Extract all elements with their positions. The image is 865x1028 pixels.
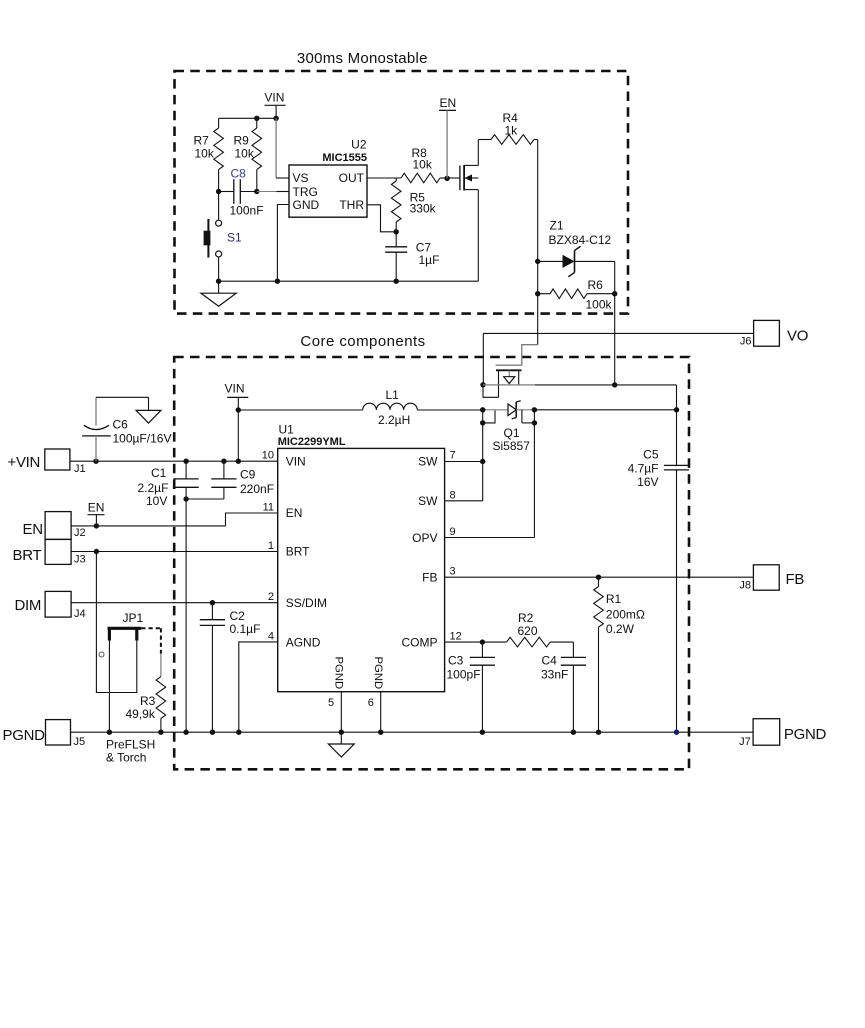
svg-text:J8: J8 [739, 580, 751, 592]
wire: JP1 pin1 to PGND rail [108, 641, 110, 733]
svg-text:10V: 10V [146, 494, 167, 508]
svg-text:PreFLSH: PreFLSH [106, 738, 155, 752]
wire: M1 drain to R4 [477, 140, 479, 166]
svg-text:VIN: VIN [264, 91, 284, 105]
svg-text:16V: 16V [637, 475, 658, 489]
svg-text:AGND: AGND [286, 635, 321, 649]
junction dot R8/EN/gate [444, 176, 449, 181]
wire: BRT line to U1 BRT pin 1 [71, 551, 278, 553]
wire: Z1 cathode down to R6 right [614, 261, 616, 293]
svg-text:4: 4 [268, 630, 274, 642]
connector J3 BRT [13, 539, 86, 565]
junction dot C6 tap [93, 459, 98, 464]
jumper JP1 [99, 611, 161, 657]
svg-text:SS/DIM: SS/DIM [286, 596, 327, 610]
svg-text:49,9k: 49,9k [126, 707, 156, 721]
junction dot Q1 left at SW node [480, 407, 485, 412]
resistor R2 620 [482, 611, 573, 657]
svg-text:1k: 1k [505, 124, 519, 138]
svg-text:SW: SW [418, 455, 438, 469]
connector J2 EN [23, 512, 86, 540]
svg-text:VIN: VIN [225, 382, 245, 396]
svg-text:J2: J2 [74, 527, 86, 539]
svg-text:100nF: 100nF [230, 204, 264, 218]
junction dot AGND at rail [236, 730, 241, 735]
svg-text:200mΩ: 200mΩ [606, 608, 645, 622]
svg-text:Si5857: Si5857 [493, 439, 531, 453]
svg-text:PGND: PGND [332, 657, 344, 690]
svg-text:3: 3 [450, 566, 456, 578]
svg-text:FB: FB [786, 571, 805, 588]
capacitor C8 100nF [219, 167, 264, 218]
capacitor C3 100pF [447, 642, 496, 732]
svg-text:MIC2299YML: MIC2299YML [278, 436, 346, 448]
svg-text:620: 620 [518, 624, 538, 638]
svg-text:Q1: Q1 [504, 426, 520, 440]
wire: U1 SW pin 8 [445, 500, 483, 502]
junction dot COMP/C3/R2 [480, 639, 485, 644]
junction dot C5 at rail (navy) [674, 730, 679, 735]
svg-text:SW: SW [418, 494, 438, 508]
net label EN (monostable) [439, 96, 456, 178]
op-amp/timer U2 MIC1555 box [289, 138, 367, 218]
svg-text:2: 2 [268, 591, 274, 603]
inductor L1 2.2uH [238, 388, 482, 427]
wire: U2 THR to node [367, 205, 396, 232]
junction dot VIN label at input line [236, 459, 241, 464]
svg-text:9: 9 [450, 526, 456, 538]
wire: U1 PGND pin 5 to rail [340, 692, 342, 733]
wire: SW node vertical (pins 7/8) [482, 423, 484, 501]
wire: U1 PGND pin 6 to rail [380, 692, 382, 733]
junction dot R1 at rail [596, 730, 601, 735]
svg-text:300ms Monostable: 300ms Monostable [297, 50, 428, 67]
svg-text:PGND: PGND [3, 727, 46, 744]
svg-text:10k: 10k [413, 158, 433, 172]
junction dot EN label tap [94, 523, 99, 528]
junction dot C8 left [216, 189, 221, 194]
svg-text:VS: VS [293, 171, 309, 185]
svg-text:MIC1555: MIC1555 [322, 152, 367, 164]
svg-text:1: 1 [268, 540, 274, 552]
transistor M1 n-channel MOSFET [460, 165, 478, 191]
resistor R7 10k [194, 118, 224, 191]
wire: U1 OPV pin 9 [445, 537, 535, 539]
connector J4 DIM [15, 591, 86, 620]
capacitor C2 0.1uF [200, 603, 261, 733]
wire: monostable ground rail [219, 280, 479, 282]
svg-text:COMP: COMP [402, 635, 438, 649]
connector J7 PGND [739, 719, 826, 749]
svg-text:PGND: PGND [784, 726, 827, 743]
wire: output node to C5 [534, 409, 676, 411]
svg-text:EN: EN [88, 501, 105, 515]
svg-text:S1: S1 [227, 231, 242, 245]
transistor Q1 Si5857 body diode [483, 401, 535, 453]
svg-text:Z1: Z1 [550, 219, 564, 233]
capacitor C9 220nF [186, 461, 274, 499]
junction dot PGND5 [339, 730, 344, 735]
label PreFLSH & Torch [106, 738, 155, 765]
svg-text:33nF: 33nF [541, 668, 568, 682]
capacitor C6 100uF/16V polarized [82, 397, 171, 461]
svg-text:BRT: BRT [13, 547, 42, 564]
svg-text:C5: C5 [643, 448, 659, 462]
junction dot C9 top [221, 459, 226, 464]
switch S1 pushbutton [204, 192, 242, 282]
svg-text:R2: R2 [518, 611, 534, 625]
svg-text:+VIN: +VIN [8, 454, 41, 471]
wire: Q2 drain line [483, 384, 677, 386]
junction dot C2 tap [210, 600, 215, 605]
wire: DIM line to U1 SS/DIM pin 2 [71, 602, 278, 604]
junction dot SW pin7 [480, 459, 485, 464]
svg-text:& Torch: & Torch [106, 751, 146, 765]
junction dot R6 left [535, 291, 540, 296]
svg-text:DIM: DIM [15, 597, 42, 614]
junction dot C8 right / TRG [254, 189, 259, 194]
connector J6 VO [740, 320, 808, 347]
svg-text:6: 6 [368, 697, 374, 709]
svg-text:8: 8 [450, 489, 456, 501]
svg-text:2.2µF: 2.2µF [138, 481, 169, 495]
connector J1 +VIN [8, 449, 86, 475]
transistor Q2 p-channel MOSFET (output disconnect) [483, 345, 538, 398]
svg-text:0.2W: 0.2W [606, 622, 635, 636]
svg-text:R3: R3 [140, 694, 156, 708]
capacitor C4 33nF [541, 654, 586, 733]
junction dot Q1 right at output node [532, 407, 537, 412]
svg-text:100k: 100k [586, 298, 613, 312]
wire: U2 GND to ground rail [277, 205, 289, 282]
junction dot R6 right [612, 291, 617, 296]
resistor R1 200mOhm 0.2W [594, 577, 645, 732]
wire: M1 source to ground rail [477, 190, 479, 282]
svg-text:100pF: 100pF [447, 668, 481, 682]
svg-text:C2: C2 [230, 609, 246, 623]
wire: R6/Z1 node down to Q2 drain line [614, 294, 616, 385]
svg-text:GND: GND [293, 198, 320, 212]
wire: VO down to Q2 source node [482, 333, 484, 384]
resistor R5 330k [391, 178, 436, 232]
wire: OPV vertical to Q1 gate [533, 410, 535, 538]
ground symbol (core) [328, 732, 354, 757]
svg-text:C8: C8 [231, 167, 247, 181]
svg-text:2.2µH: 2.2µH [378, 413, 410, 427]
svg-text:EN: EN [286, 506, 303, 520]
net label VIN (core) [225, 382, 249, 462]
junction dot C4 at rail [571, 730, 576, 735]
net label EN (core) [88, 501, 105, 526]
junction dot C1 at rail [183, 730, 188, 735]
wire: JP1 pin2 to BRT [96, 552, 136, 693]
svg-text:PGND: PGND [372, 657, 384, 690]
junction dot VIN/VS branch [273, 116, 278, 121]
svg-text:EN: EN [440, 96, 457, 110]
dashed box: 300ms Monostable section [175, 71, 629, 314]
svg-text:J5: J5 [74, 736, 86, 748]
connector J5 PGND [3, 720, 86, 748]
svg-text:U2: U2 [351, 138, 367, 152]
capacitor C7 1uF [385, 232, 439, 281]
junction dot PGND6 [378, 730, 383, 735]
svg-text:12: 12 [450, 631, 462, 643]
junction dot R1 top [596, 575, 601, 580]
svg-text:100µF/16V: 100µF/16V [113, 432, 172, 446]
junction dot Q1 source bracket [480, 420, 485, 425]
resistor R9 10k [234, 118, 262, 191]
IC U1 MIC2299YML box [278, 422, 445, 691]
connector J8 FB [739, 565, 804, 592]
wire: EN line to U1 EN pin 11 [71, 513, 278, 526]
wire: drain line down to SW output node [676, 385, 678, 410]
svg-text:R6: R6 [588, 278, 604, 292]
svg-text:BZX84-C12: BZX84-C12 [549, 233, 612, 247]
capacitor C5 4.7uF 16V [628, 410, 690, 732]
junction dot S1/ground [216, 279, 221, 284]
junction dot JP1 at rail [107, 730, 112, 735]
svg-text:Core components: Core components [300, 333, 425, 350]
svg-text:U1: U1 [279, 422, 295, 436]
wire: U2 OUT [367, 177, 401, 179]
svg-text:R9: R9 [234, 134, 250, 148]
wire: +VIN input line to U1 VIN pin 10 [70, 460, 278, 462]
wire: Q1 source bracket [483, 410, 495, 423]
svg-text:10k: 10k [235, 147, 255, 161]
svg-text:VIN: VIN [286, 455, 306, 469]
svg-text:C3: C3 [448, 654, 464, 668]
svg-text:11: 11 [263, 502, 274, 514]
svg-text:OUT: OUT [339, 171, 365, 185]
junction dot R5/THR/C7 [394, 229, 399, 234]
svg-text:OPV: OPV [412, 531, 437, 545]
junction dot Q1 drain bracket [532, 420, 537, 425]
junction dot C2 at rail [210, 730, 215, 735]
junction dot gate-divider at drain line [612, 382, 617, 387]
svg-text:L1: L1 [386, 388, 400, 402]
junction dot C1 top [183, 459, 188, 464]
wire: VO output line [483, 332, 753, 334]
svg-text:10k: 10k [195, 147, 215, 161]
resistor R6 100k [538, 278, 615, 312]
svg-text:4.7µF: 4.7µF [628, 462, 659, 476]
capacitor C1 2.2uF 10V [138, 461, 199, 732]
svg-text:C4: C4 [542, 654, 558, 668]
svg-text:C6: C6 [113, 418, 129, 432]
junction dot Z1 anode [535, 259, 540, 264]
wire: Q1 drain bracket [522, 410, 535, 423]
wire: R4 to Z1/R6 node, down to PMOS gate [537, 140, 539, 345]
svg-text:C1: C1 [151, 466, 167, 480]
svg-text:J3: J3 [74, 554, 86, 566]
wire: VIN top rail to R7/R9 [219, 117, 277, 119]
svg-text:R1: R1 [606, 592, 622, 606]
svg-text:1µF: 1µF [419, 253, 440, 267]
wire: PGND ground rail [71, 731, 754, 733]
dashed box: Core components section [174, 357, 689, 769]
svg-text:J7: J7 [739, 736, 751, 748]
junction dot C3 at rail [480, 730, 485, 735]
wire: U1 FB pin 3 to J8 [445, 576, 754, 578]
svg-text:J6: J6 [740, 336, 752, 348]
svg-text:JP1: JP1 [123, 611, 144, 625]
svg-text:R7: R7 [194, 134, 210, 148]
junction dot Q2 source / VO [480, 382, 485, 387]
resistor R3 49,9k [126, 654, 166, 733]
junction dot R9 top [254, 116, 259, 121]
junction dot U2 GND at rail [275, 279, 280, 284]
wire: gate lead of M1 [447, 177, 460, 179]
resistor R4 1k [478, 111, 537, 144]
ground symbol (monostable) [201, 281, 236, 306]
junction dot C1/C9 bottom join [183, 496, 188, 501]
svg-text:C9: C9 [240, 468, 256, 482]
junction dot R3 at rail [158, 730, 163, 735]
wire: U1 AGND pin 4 to PGND rail [239, 642, 278, 732]
svg-text:J4: J4 [74, 608, 86, 620]
junction dot output at C5 [674, 407, 679, 412]
svg-text:J1: J1 [74, 463, 86, 475]
wire: VIN to VS pin of U2 [276, 118, 289, 178]
svg-text:FB: FB [422, 570, 437, 584]
junction dot BRT/JP1 branch [94, 549, 99, 554]
svg-text:10: 10 [262, 450, 274, 462]
wire: U1 COMP pin 12 [445, 641, 483, 643]
svg-text:7: 7 [450, 450, 456, 462]
svg-text:THR: THR [339, 198, 364, 212]
svg-text:TRG: TRG [293, 185, 318, 199]
zener diode Z1 BZX84-C12 [538, 219, 615, 277]
svg-text:220nF: 220nF [240, 482, 274, 496]
svg-text:330k: 330k [410, 202, 437, 216]
svg-text:5: 5 [328, 697, 334, 709]
svg-text:BRT: BRT [286, 545, 310, 559]
svg-text:EN: EN [23, 521, 43, 538]
junction dot C7 at rail [394, 279, 399, 284]
svg-text:VO: VO [787, 328, 808, 345]
wire: TRG net to U2 [257, 191, 289, 193]
junction dot VIN at L1 line [236, 407, 241, 412]
net label VIN (monostable) [264, 91, 285, 119]
svg-text:0.1µF: 0.1µF [230, 622, 261, 636]
wire: U1 SW pin 7 [445, 461, 483, 463]
resistor R8 10k [401, 146, 447, 183]
